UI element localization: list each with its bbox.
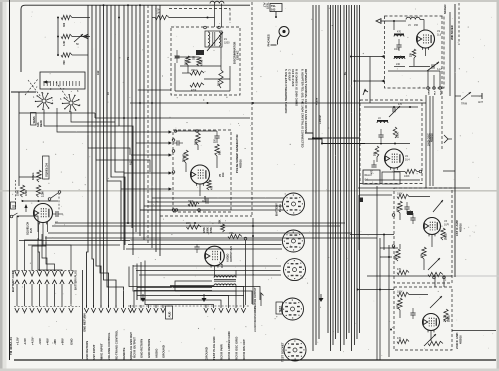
svg-text:3.3K: 3.3K — [63, 41, 66, 46]
wire jack stub — [275, 12, 277, 19]
svg-text:1U4: 1U4 — [444, 224, 449, 227]
svg-text:ANT INPUT: ANT INPUT — [92, 344, 96, 360]
svg-text:47K: 47K — [211, 185, 214, 190]
label 1ST IF AMP — [455, 220, 463, 236]
terminal battery GND — [69, 271, 74, 345]
svg-text:RCVR DIS OUT: RCVR DIS OUT — [242, 339, 246, 360]
label V4 — [443, 316, 448, 323]
wire ant branch — [443, 170, 455, 172]
svg-text:1200: 1200 — [224, 42, 230, 45]
trimmer T24 — [424, 334, 436, 346]
svg-text:A12: A12 — [97, 70, 100, 75]
wire bus C6 — [332, 5, 334, 345]
capacitor C13 — [378, 129, 383, 142]
wire y160 elbow — [96, 140, 150, 172]
svg-text:REMOTE: REMOTE — [122, 348, 126, 360]
svg-text:AUD: AUD — [168, 312, 172, 318]
wire bus B2 — [127, 5, 129, 224]
terminal circles IF1 left — [392, 214, 395, 248]
svg-text:4935/16: 4935/16 — [460, 223, 463, 232]
trimmer T21 — [433, 200, 443, 212]
capacitor C24 — [410, 213, 415, 224]
svg-text:300: 300 — [63, 22, 66, 27]
wire gnd return long — [83, 270, 87, 359]
svg-text:220K: 220K — [219, 80, 221, 86]
shield box outer enclosure — [160, 2, 252, 216]
arrow switch rotor — [43, 80, 50, 83]
svg-text:47K: 47K — [397, 268, 402, 271]
wire squelch top rail — [19, 176, 39, 178]
capacitor C23 — [404, 202, 409, 214]
wire conn2 feeds — [126, 240, 282, 249]
wire T2 conn — [170, 266, 236, 291]
svg-text:5. UNLESS OTHERWISE SHOWN:: 5. UNLESS OTHERWISE SHOWN: — [284, 69, 288, 114]
svg-text:-45V: -45V — [53, 339, 57, 345]
wire rcvr line 1 — [137, 288, 212, 301]
terminal ANT INPUT — [91, 305, 96, 360]
switch linkage dash S3 — [58, 193, 60, 210]
note text line 2 — [288, 69, 292, 81]
wire bus A3 — [96, 5, 101, 307]
svg-text:BATTERY PLUG: BATTERY PLUG — [74, 270, 78, 290]
svg-text:100K: 100K — [397, 291, 403, 294]
connector P5 TEST SOCKET — [284, 339, 306, 361]
connector P3 — [284, 259, 306, 281]
shield box pulse sweep generator — [173, 130, 231, 212]
wire bus C11 — [346, 5, 348, 339]
resistor R27 — [428, 272, 443, 276]
transformer T2 secondary — [214, 284, 236, 286]
wire right bus y188 — [358, 187, 470, 189]
wire conn3 feeds — [133, 266, 281, 275]
trimmer Z1 arrow — [207, 32, 223, 51]
switch linkage dash S2 — [15, 180, 17, 207]
relay box — [363, 170, 400, 184]
wire bus y118 — [95, 117, 250, 119]
wire bus B6 — [143, 5, 145, 240]
wire squelch pins — [39, 222, 48, 245]
label V6 3V4 — [226, 245, 234, 262]
svg-text:470K: 470K — [397, 303, 400, 309]
resistor R34 vol — [228, 232, 247, 240]
svg-text:C15: C15 — [222, 263, 224, 268]
svg-text:J-1 RCVR DISCRIMINATOR OUTPUT: J-1 RCVR DISCRIMINATOR OUTPUT — [253, 287, 257, 332]
wire rcvr line 2 — [134, 290, 212, 292]
wire bus C12 — [348, 5, 350, 333]
wire vert x380 — [379, 238, 381, 360]
wire bus A6 — [107, 5, 124, 307]
tube V6 audio 3V4 — [205, 246, 225, 267]
wire vert x430 — [429, 96, 431, 186]
wire vol down — [245, 240, 247, 305]
resistor R62 — [186, 56, 191, 65]
resistor R21 — [397, 193, 409, 199]
svg-text:TEST: TEST — [266, 3, 270, 10]
svg-text:4935/16: 4935/16 — [240, 159, 243, 168]
tube V1 mixer 1L6 — [417, 30, 435, 50]
terminal RCVR OUTPUT — [132, 305, 137, 358]
wire switch tails — [44, 108, 133, 132]
wire battery feed 2 — [25, 234, 43, 271]
terminal strip box — [40, 72, 85, 89]
wire vert x377 — [376, 186, 378, 360]
svg-text:22K: 22K — [411, 52, 413, 57]
connector P4 TEST SOCKET — [282, 298, 304, 320]
wire right y248 — [380, 247, 398, 249]
svg-text:A13: A13 — [130, 160, 133, 165]
wire bus C9 — [340, 5, 342, 351]
svg-text:56K: 56K — [219, 150, 222, 155]
wire battery feed 7 — [38, 244, 62, 271]
wire bus C7 — [335, 5, 337, 339]
wire battery feed 1 — [17, 216, 38, 271]
resistor R35 — [397, 337, 409, 344]
svg-text:+150V: +150V — [318, 115, 322, 124]
label BATTERY PLUG col — [74, 270, 78, 290]
tube V7 squelch 1U5 — [34, 204, 53, 225]
svg-text:PLUG: PLUG — [278, 204, 282, 212]
note text line 3 — [291, 69, 295, 87]
capacitor C62 — [174, 50, 179, 63]
svg-text:BETWEEN TERMINAL C1F OF S2 AND: BETWEEN TERMINAL C1F OF S2 AND GROUND. — [304, 69, 308, 134]
svg-text:+45V: +45V — [45, 338, 49, 345]
scan edge top — [0, 0, 499, 2]
terminal battery -4.5V — [37, 271, 42, 345]
label switch note — [37, 120, 43, 127]
svg-text:PHONES: PHONES — [267, 34, 271, 46]
wire disc row79 — [204, 66, 230, 91]
svg-text:C IS UUF: C IS UUF — [288, 69, 292, 81]
svg-text:RELAY: RELAY — [365, 174, 373, 177]
wire pulse internals — [186, 131, 217, 196]
wire fan row4 1 — [129, 267, 244, 306]
label bus tag — [130, 160, 133, 165]
svg-text:TEST PLUG GND: TEST PLUG GND — [212, 337, 216, 360]
terminal REMOTE — [121, 305, 126, 360]
resistor R54 — [207, 180, 214, 190]
trimmer C3 — [427, 62, 442, 71]
svg-text:1ST IF AMP.: 1ST IF AMP. — [455, 220, 459, 236]
svg-text:TEST: TEST — [279, 306, 282, 313]
terminal AUDIO — [154, 305, 159, 358]
svg-text:OUTPUT 3V4: OUTPUT 3V4 — [229, 245, 233, 262]
rotary switch S1A — [35, 92, 53, 110]
wire battery feed 5 — [42, 240, 47, 271]
resistor R9 1MEG — [31, 170, 41, 182]
resistor R25 — [421, 247, 427, 259]
wire osc mid rail — [362, 143, 410, 145]
resistor R13v — [393, 127, 399, 138]
wire bus step upper — [305, 133, 359, 138]
switch S3 — [48, 191, 61, 201]
svg-text:B+: B+ — [344, 71, 347, 75]
capacitor C53 — [202, 195, 208, 204]
dashed line mid terminal row — [128, 305, 250, 307]
ground sym G1 — [141, 294, 146, 302]
arrow into mixer — [376, 19, 386, 24]
label 2ND OSC — [427, 132, 434, 146]
svg-text:GROUND: GROUND — [204, 347, 208, 360]
label bus A12 — [97, 70, 100, 75]
resistor R22 — [397, 201, 403, 213]
shield box discriminator — [171, 27, 240, 95]
capacitor C28 — [410, 308, 415, 319]
wire right y257 — [380, 256, 392, 258]
connector P2 — [282, 230, 304, 252]
wire battery feed 3 — [32, 236, 46, 271]
coil L7 top — [210, 1, 224, 27]
border frame bottom — [14, 359, 496, 361]
label mixer pins — [429, 89, 443, 95]
svg-text:VOLUME CONTROL: VOLUME CONTROL — [107, 332, 111, 360]
label SQUELCH boxed vertical — [43, 156, 50, 179]
wire bus A5 — [104, 5, 117, 307]
inductor L3 iron core — [394, 31, 404, 37]
svg-text:TEL: TEL — [271, 4, 276, 8]
trimmer T23 — [430, 296, 442, 308]
label bus A7 — [107, 91, 110, 95]
wire r-chain bot — [57, 54, 88, 56]
terminal GND RETURN — [139, 305, 144, 358]
wire battery feed 4 — [38, 238, 40, 271]
trimmer antenna — [461, 92, 471, 106]
resistor R52 56K — [215, 144, 222, 156]
resistor R10 330K — [17, 185, 29, 197]
wire pulse bottom rail — [175, 209, 210, 212]
terminal circles pulse left — [172, 139, 175, 212]
wire bus B9 — [155, 5, 157, 252]
wire conn4 feeds — [170, 287, 260, 305]
svg-text:MIKE INPUT: MIKE INPUT — [99, 343, 103, 360]
tube V4 2nd IF 1U4 — [423, 314, 440, 333]
capacitor C51 — [214, 131, 219, 143]
resistor R12 2.2MEG — [36, 185, 44, 197]
inductor L5 — [406, 17, 424, 19]
label BATTERY CORD col — [11, 270, 15, 292]
transformer T2 core — [214, 280, 236, 282]
resistor R26 — [397, 268, 409, 275]
label V3 — [444, 220, 449, 227]
wire fan row4 5 — [145, 261, 214, 306]
terminal RE-TRANS CONTROL — [114, 305, 119, 360]
wire battery feed 8 — [42, 245, 71, 271]
wire bus A6 — [107, 5, 121, 240]
svg-text:ANT: ANT — [478, 101, 483, 104]
svg-text:C10 IS 4 UUF: C10 IS 4 UUF — [291, 69, 295, 87]
border frame inner-left — [18, 92, 20, 186]
svg-text:RCVR LIMITER GRID: RCVR LIMITER GRID — [227, 331, 231, 360]
rotary switch S1B — [62, 94, 80, 112]
svg-text:100K: 100K — [397, 132, 400, 138]
border frame left — [9, 0, 11, 360]
label S1A pins — [33, 86, 54, 105]
note text line 4 — [295, 69, 299, 106]
label BATTERY PLUG — [275, 203, 283, 216]
terminal RCVR LIMITER GRID — [226, 305, 231, 360]
wire fan row4 4 — [141, 262, 221, 305]
svg-text:+105V: +105V — [316, 97, 319, 105]
grid arrow squelch — [24, 204, 27, 212]
wire bus A9 — [119, 5, 133, 255]
long bus y238 — [45, 237, 377, 239]
terminal RCVR OSC GRID — [234, 305, 239, 360]
resistor R28 — [397, 291, 409, 297]
svg-text:AUDIO: AUDIO — [226, 254, 230, 262]
resistor R103 — [61, 53, 72, 65]
resistor R51 — [195, 133, 201, 145]
wire bus B7 shielded — [147, 5, 149, 244]
wire J1 arrow — [261, 293, 264, 306]
tube V5 pulse 1U4 — [191, 165, 210, 186]
bent arrow into osc — [363, 89, 368, 96]
antenna arrow sym — [444, 135, 452, 143]
label AUDIO boxed — [166, 306, 173, 319]
scan edge right — [497, 0, 499, 371]
svg-text:1MEG: 1MEG — [448, 315, 451, 322]
svg-text:100K: 100K — [394, 49, 400, 51]
capacitor C25 dark — [407, 211, 413, 215]
resistor R32 vert — [219, 219, 225, 232]
svg-text:PULSE SWEEP GENERATOR: PULSE SWEEP GENERATOR — [235, 134, 239, 173]
svg-text:330K: 330K — [17, 190, 20, 196]
long bus y226 — [52, 225, 340, 227]
inductor L4 iron core — [394, 57, 405, 66]
resistor R14 100K — [404, 169, 417, 178]
shield box 1st IF — [394, 188, 452, 283]
transformer Z1 variable — [205, 31, 222, 47]
junction dot step — [312, 137, 323, 145]
resistor R53 trans — [183, 150, 189, 163]
wire r-chain top — [57, 17, 90, 19]
svg-text:SENS: SENS — [32, 116, 36, 123]
wire squelch node — [22, 200, 59, 202]
terminal SQUELCH GND RET — [128, 305, 133, 360]
trimmer CT1 — [74, 34, 83, 46]
svg-text:+4.5V: +4.5V — [30, 337, 34, 345]
resistor R66 — [190, 83, 204, 92]
svg-text:270K: 270K — [210, 227, 213, 233]
terminal GND RETURN — [146, 305, 151, 358]
wire bus A7 — [111, 5, 125, 245]
svg-text:470: 470 — [397, 31, 402, 34]
capacitor C2 — [394, 39, 402, 51]
terminal battery +1.5V — [15, 271, 20, 345]
wire IF1 bottom stubs — [435, 275, 444, 287]
trimmer T22 — [428, 258, 440, 270]
svg-text:470K: 470K — [201, 60, 204, 66]
terminal battery +4.5V — [30, 271, 35, 345]
long bus y240 — [19, 240, 130, 242]
wire r-chain mid — [57, 36, 90, 38]
label ALT boxed — [270, 4, 282, 12]
wire bus B8 — [151, 5, 153, 248]
svg-text:10K: 10K — [219, 219, 222, 224]
wire bus C15 — [356, 5, 358, 339]
label PULSE SWEEP GENERATOR — [235, 134, 243, 173]
svg-text:TEST SOCKET: TEST SOCKET — [281, 342, 285, 362]
terminal battery +45V — [45, 271, 50, 345]
svg-text:TRIM: TRIM — [461, 103, 467, 106]
wire bus C1 — [312, 5, 314, 351]
wire y90 stub — [138, 89, 171, 91]
svg-text:GND: GND — [69, 339, 73, 345]
dashed line battery plug row — [14, 270, 74, 272]
svg-text:2.2M: 2.2M — [42, 191, 45, 197]
wire node col — [57, 18, 59, 56]
wire vert x455 — [454, 4, 456, 277]
svg-text:1U5: 1U5 — [29, 228, 33, 233]
svg-text:470K: 470K — [25, 190, 28, 196]
terminal battery -1.5V — [22, 271, 27, 345]
wire rcvr out 1 — [134, 288, 137, 306]
svg-text:C60: C60 — [194, 55, 196, 60]
capacitor C14 — [371, 160, 377, 174]
wire disc in — [152, 17, 215, 19]
svg-text:1L6: 1L6 — [437, 34, 442, 37]
svg-text:O-1: O-1 — [365, 179, 370, 182]
svg-text:390K: 390K — [188, 201, 194, 203]
wire disc row66 — [180, 65, 221, 67]
svg-text:RCVR OUTPUT: RCVR OUTPUT — [132, 337, 136, 358]
wire bus A2 — [92, 5, 94, 307]
label TEST SOCKET boxed — [276, 302, 283, 314]
wire vert x433 — [432, 96, 434, 186]
label MIXER top right — [450, 25, 454, 40]
resistor R63 — [197, 57, 204, 66]
svg-text:5K: 5K — [76, 43, 79, 46]
junction dots y103 — [139, 102, 254, 104]
wire bus B10 — [159, 5, 161, 256]
svg-text:470K: 470K — [397, 206, 400, 212]
terminal GROUND — [204, 305, 209, 360]
switch S2 contact — [10, 213, 19, 218]
svg-text:100K: 100K — [397, 193, 403, 196]
ground sym G2 — [202, 294, 207, 302]
resistor R61 7.5K — [155, 9, 169, 20]
svg-text:300K: 300K — [195, 139, 198, 145]
label r-cluster — [203, 227, 213, 233]
terminal circle osc — [419, 170, 422, 173]
tube V2 osc 1U4 — [385, 149, 404, 170]
tube V3 1st IF 1U4 — [424, 218, 441, 237]
shield box 2nd IF — [394, 287, 452, 350]
arrow into resistor row — [83, 34, 88, 38]
terminal circles mixer bottom — [427, 87, 442, 90]
svg-text:4935/16: 4935/16 — [460, 335, 463, 344]
svg-text:GND RETURN: GND RETURN — [147, 339, 151, 358]
svg-text:AUDIO: AUDIO — [154, 348, 158, 358]
note text line 6 — [304, 69, 308, 134]
svg-text:TM 4035A-34: TM 4035A-34 — [9, 337, 13, 355]
transformer T2 primary — [214, 276, 236, 278]
svg-text:-1.5V: -1.5V — [23, 338, 27, 345]
wire vert x370 — [369, 57, 371, 104]
long bus y245 — [28, 244, 120, 246]
label L5 — [408, 24, 419, 27]
junction dots bus tops — [103, 4, 142, 18]
svg-text:R IS OHMS K IS 1000 OHMS: R IS OHMS K IS 1000 OHMS — [295, 69, 299, 106]
resistor R13 — [374, 146, 379, 157]
wire mixer feed — [350, 55, 385, 83]
terminal GND RETURN — [84, 305, 89, 360]
wire conn1 feeds — [140, 198, 284, 210]
svg-text:GROUND: GROUND — [161, 345, 165, 358]
note text line 5 — [301, 69, 305, 147]
svg-text:GRID: GRID — [429, 89, 431, 95]
wire bus y103 — [130, 102, 426, 104]
svg-text:BATTERY CORD: BATTERY CORD — [11, 270, 15, 292]
switch linkage dashes — [25, 79, 38, 95]
